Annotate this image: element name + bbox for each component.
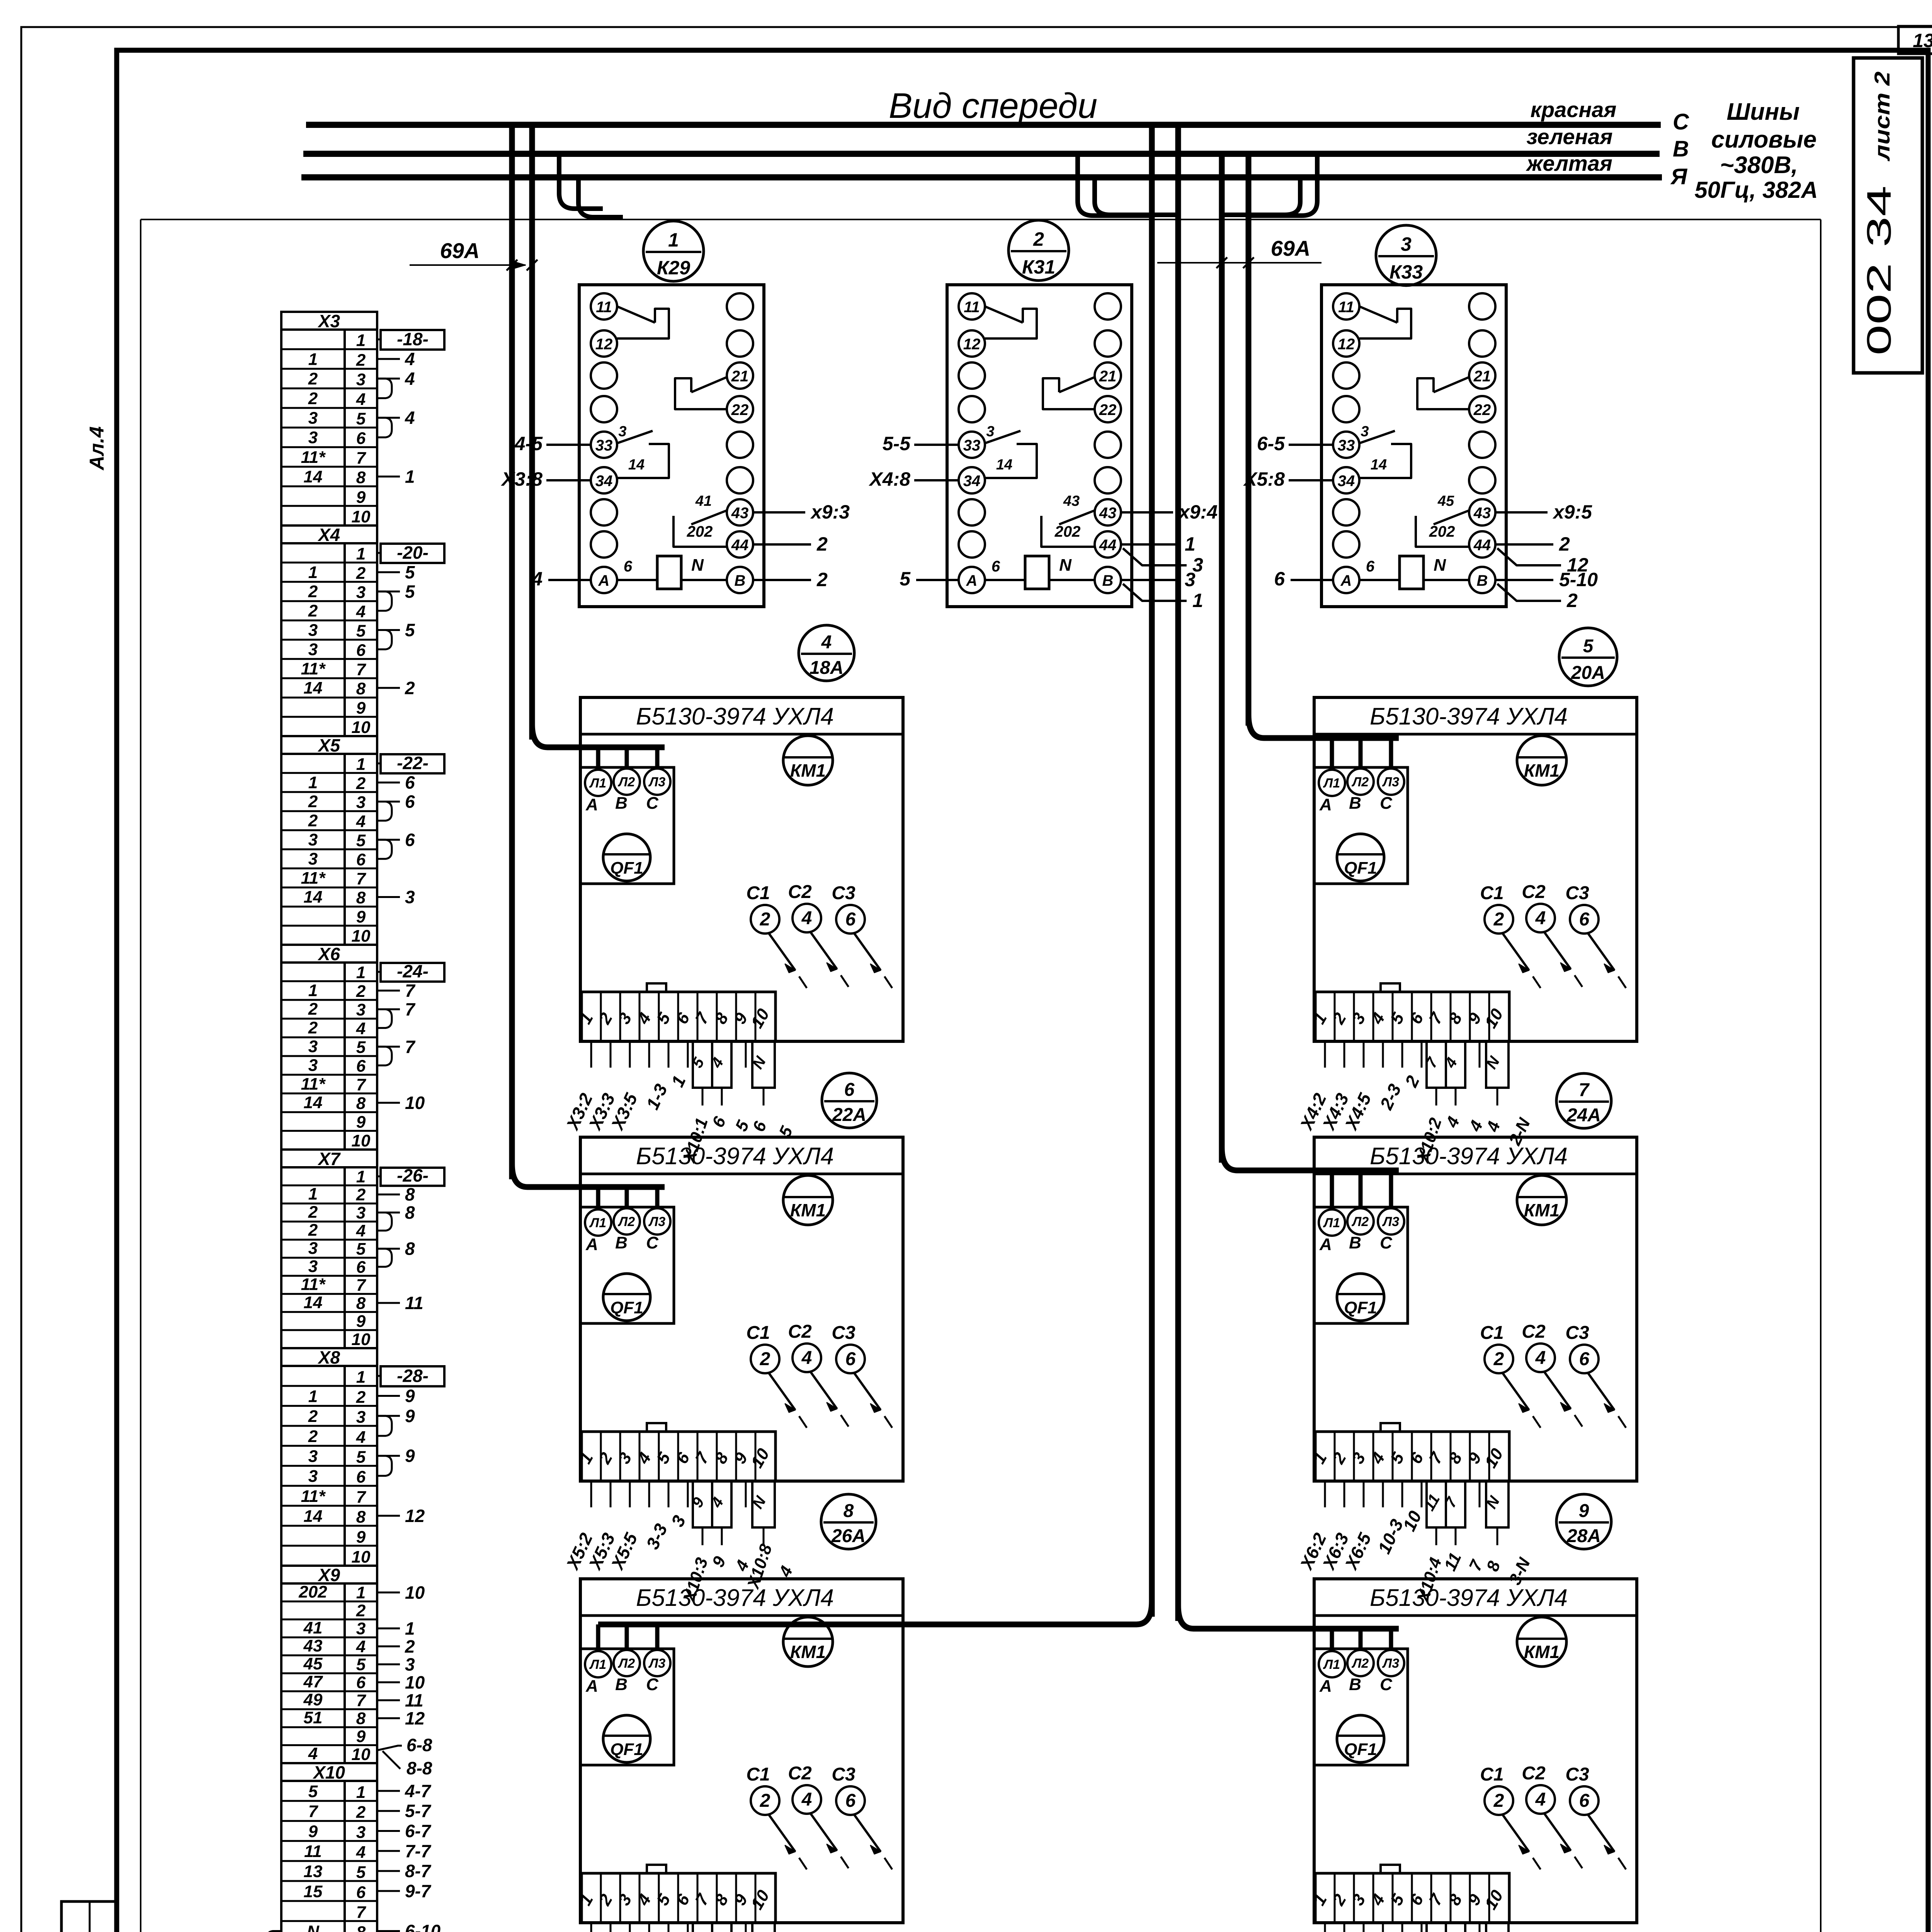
svg-text:5: 5 <box>405 562 415 582</box>
svg-text:6: 6 <box>356 1468 366 1486</box>
svg-text:6: 6 <box>356 1883 366 1902</box>
svg-text:33: 33 <box>595 437 613 454</box>
svg-text:А: А <box>1319 795 1332 814</box>
svg-text:3: 3 <box>356 1408 366 1427</box>
svg-text:С3: С3 <box>1565 1323 1589 1343</box>
svg-text:-26-: -26- <box>397 1165 429 1185</box>
svg-text:2: 2 <box>308 1000 318 1019</box>
svg-text:12: 12 <box>1338 336 1355 353</box>
svg-text:6: 6 <box>356 641 366 660</box>
svg-text:1: 1 <box>356 1167 366 1186</box>
svg-text:QF1: QF1 <box>1344 1298 1377 1317</box>
svg-text:14: 14 <box>1371 457 1387 473</box>
svg-text:7: 7 <box>356 449 367 468</box>
svg-text:3: 3 <box>308 1037 318 1056</box>
svg-text:5: 5 <box>356 831 366 850</box>
svg-text:4: 4 <box>801 1789 812 1810</box>
svg-text:С: С <box>1673 109 1689 134</box>
svg-text:5-7: 5-7 <box>405 1801 432 1821</box>
svg-text:5: 5 <box>356 1448 366 1467</box>
svg-text:3: 3 <box>356 1619 366 1638</box>
svg-text:7: 7 <box>405 999 416 1019</box>
svg-text:А: А <box>598 572 610 589</box>
svg-text:3: 3 <box>986 423 994 440</box>
svg-text:1: 1 <box>356 1783 366 1802</box>
svg-text:Л1: Л1 <box>1323 776 1340 791</box>
svg-text:12: 12 <box>405 1708 425 1728</box>
svg-text:202: 202 <box>1429 523 1455 540</box>
svg-text:Б5130-3974 УХЛ4: Б5130-3974 УХЛ4 <box>1370 1585 1568 1611</box>
svg-text:2: 2 <box>308 1427 318 1446</box>
svg-text:2: 2 <box>405 678 415 698</box>
svg-text:6: 6 <box>845 1349 856 1369</box>
svg-text:7: 7 <box>356 1691 367 1710</box>
svg-text:3: 3 <box>308 830 318 849</box>
svg-text:2: 2 <box>1493 1791 1504 1811</box>
svg-text:4: 4 <box>356 390 366 409</box>
svg-text:8-8: 8-8 <box>406 1758 432 1778</box>
svg-text:11: 11 <box>405 1293 423 1313</box>
svg-text:8: 8 <box>356 468 366 487</box>
svg-text:Б5130-3974 УХЛ4: Б5130-3974 УХЛ4 <box>1370 1143 1568 1170</box>
svg-text:Х7: Х7 <box>317 1149 341 1169</box>
svg-text:8: 8 <box>356 1508 366 1527</box>
svg-text:21: 21 <box>731 368 749 385</box>
svg-text:11*: 11* <box>301 659 326 678</box>
svg-text:4: 4 <box>1535 1348 1546 1368</box>
svg-text:28А: 28А <box>1566 1526 1601 1546</box>
svg-text:лист 2: лист 2 <box>1870 71 1894 162</box>
svg-text:11*: 11* <box>301 1275 326 1294</box>
svg-text:N: N <box>691 556 704 575</box>
svg-text:В: В <box>735 572 746 589</box>
svg-text:4: 4 <box>801 1348 812 1368</box>
svg-text:6: 6 <box>1274 568 1285 590</box>
svg-text:-28-: -28- <box>397 1366 429 1386</box>
svg-text:1: 1 <box>1185 533 1196 555</box>
svg-text:КМ1: КМ1 <box>790 1200 826 1220</box>
svg-text:2: 2 <box>1559 533 1570 555</box>
svg-text:3: 3 <box>308 1447 318 1466</box>
svg-text:Ал.4: Ал.4 <box>86 426 108 471</box>
svg-text:В: В <box>615 1675 628 1694</box>
svg-text:3: 3 <box>356 793 366 812</box>
svg-text:1: 1 <box>308 1185 318 1204</box>
svg-text:2: 2 <box>308 582 318 601</box>
svg-text:8: 8 <box>356 679 366 698</box>
svg-text:5: 5 <box>356 1863 366 1882</box>
svg-text:С: С <box>646 794 659 813</box>
svg-text:3: 3 <box>308 409 318 428</box>
svg-text:22А: 22А <box>832 1105 866 1125</box>
svg-text:С3: С3 <box>832 1323 855 1343</box>
svg-text:А: А <box>585 1235 598 1254</box>
svg-text:2: 2 <box>308 1202 318 1221</box>
svg-text:6: 6 <box>405 772 415 793</box>
svg-text:43: 43 <box>731 505 749 522</box>
svg-text:С3: С3 <box>1565 883 1589 903</box>
svg-text:4: 4 <box>405 349 415 369</box>
svg-text:6: 6 <box>845 1791 856 1811</box>
svg-text:9: 9 <box>356 488 366 507</box>
svg-text:8: 8 <box>356 1923 366 1932</box>
svg-text:~380В,: ~380В, <box>1720 152 1798 179</box>
svg-text:Л1: Л1 <box>589 1216 606 1230</box>
svg-text:6: 6 <box>1579 1791 1590 1811</box>
svg-text:202: 202 <box>1054 523 1081 540</box>
svg-text:47: 47 <box>303 1672 323 1691</box>
svg-text:С: С <box>646 1675 659 1694</box>
svg-text:зеленая: зеленая <box>1527 124 1613 149</box>
svg-text:10: 10 <box>352 1131 371 1150</box>
svg-text:4: 4 <box>1535 1789 1546 1810</box>
svg-text:С: С <box>1380 1675 1393 1694</box>
svg-text:4: 4 <box>356 1843 366 1862</box>
svg-text:3: 3 <box>308 1056 318 1075</box>
svg-text:4: 4 <box>356 1019 366 1038</box>
svg-text:Х9: Х9 <box>317 1565 340 1585</box>
svg-text:1: 1 <box>308 1387 318 1406</box>
svg-text:6: 6 <box>845 909 856 930</box>
svg-text:2: 2 <box>308 792 318 811</box>
svg-text:10: 10 <box>352 718 371 737</box>
svg-text:7: 7 <box>356 1075 367 1094</box>
svg-text:14: 14 <box>304 679 323 697</box>
svg-text:11*: 11* <box>301 448 326 467</box>
svg-text:43: 43 <box>303 1636 323 1655</box>
svg-text:К31: К31 <box>1022 256 1055 278</box>
svg-text:С: С <box>646 1233 659 1252</box>
svg-text:21: 21 <box>1473 368 1491 385</box>
svg-text:3: 3 <box>618 423 626 440</box>
svg-text:8: 8 <box>356 1294 366 1313</box>
svg-text:Л2: Л2 <box>1351 1656 1369 1671</box>
svg-text:С2: С2 <box>788 1763 812 1784</box>
svg-text:18А: 18А <box>810 658 844 678</box>
svg-text:КМ1: КМ1 <box>1524 760 1560 781</box>
svg-text:С1: С1 <box>746 1764 770 1785</box>
svg-text:3: 3 <box>1401 233 1412 255</box>
svg-text:желтая: желтая <box>1526 151 1612 175</box>
svg-text:1: 1 <box>356 755 366 774</box>
svg-text:3: 3 <box>308 1239 318 1258</box>
svg-text:8: 8 <box>356 888 366 907</box>
svg-text:7: 7 <box>356 1276 367 1295</box>
svg-text:4: 4 <box>356 1221 366 1240</box>
svg-text:5: 5 <box>405 620 415 640</box>
svg-text:С2: С2 <box>788 1321 812 1342</box>
svg-text:Х3: Х3 <box>317 311 340 331</box>
svg-text:8-7: 8-7 <box>405 1861 432 1881</box>
svg-text:10: 10 <box>352 927 371 946</box>
svg-text:33: 33 <box>1338 437 1355 454</box>
svg-text:2: 2 <box>356 1388 366 1406</box>
svg-text:К33: К33 <box>1389 261 1423 283</box>
svg-text:9: 9 <box>356 1727 366 1746</box>
svg-text:13: 13 <box>1913 30 1932 51</box>
svg-text:11: 11 <box>304 1842 322 1861</box>
svg-text:Л3: Л3 <box>1382 1214 1399 1229</box>
svg-text:2: 2 <box>308 1407 318 1426</box>
svg-text:7-7: 7-7 <box>405 1841 432 1861</box>
svg-text:2: 2 <box>308 369 318 388</box>
svg-text:2: 2 <box>1033 228 1044 250</box>
svg-text:х9:5: х9:5 <box>1552 501 1592 523</box>
svg-text:QF1: QF1 <box>610 1740 643 1759</box>
svg-text:В: В <box>1102 572 1114 589</box>
svg-text:6: 6 <box>356 850 366 869</box>
svg-text:А: А <box>1340 572 1352 589</box>
svg-text:Л2: Л2 <box>1351 1214 1369 1229</box>
svg-text:2: 2 <box>816 533 828 555</box>
svg-text:С3: С3 <box>832 1764 855 1785</box>
svg-text:Л1: Л1 <box>589 1657 606 1672</box>
svg-text:44: 44 <box>731 537 749 554</box>
svg-text:22: 22 <box>731 401 749 418</box>
svg-text:А: А <box>585 795 598 814</box>
svg-text:4: 4 <box>356 602 366 621</box>
svg-text:14: 14 <box>304 468 323 486</box>
svg-text:3: 3 <box>308 1257 318 1276</box>
svg-text:2: 2 <box>760 1791 770 1811</box>
svg-text:69А: 69А <box>440 238 480 263</box>
svg-text:4: 4 <box>531 568 543 590</box>
svg-text:6: 6 <box>405 830 415 850</box>
svg-text:12: 12 <box>405 1506 425 1526</box>
svg-text:5-5: 5-5 <box>883 433 911 454</box>
svg-text:7: 7 <box>405 1037 416 1057</box>
svg-text:Б5130-3974 УХЛ4: Б5130-3974 УХЛ4 <box>636 1585 834 1611</box>
svg-text:6: 6 <box>356 1056 366 1075</box>
svg-text:3: 3 <box>405 887 415 907</box>
svg-text:1: 1 <box>356 1583 366 1602</box>
svg-text:Х10: Х10 <box>312 1762 345 1782</box>
svg-text:21: 21 <box>1099 368 1117 385</box>
svg-text:А: А <box>966 572 978 589</box>
svg-text:2: 2 <box>308 389 318 408</box>
svg-text:14: 14 <box>304 888 323 906</box>
svg-text:7: 7 <box>405 981 416 1001</box>
svg-text:45: 45 <box>1437 493 1454 509</box>
svg-text:4: 4 <box>356 1428 366 1447</box>
svg-text:24А: 24А <box>1566 1105 1601 1126</box>
svg-text:10: 10 <box>352 507 371 526</box>
svg-text:6-8: 6-8 <box>406 1735 432 1755</box>
svg-text:6: 6 <box>1366 558 1375 575</box>
svg-text:3: 3 <box>405 1654 415 1674</box>
svg-text:14: 14 <box>304 1093 323 1112</box>
svg-text:14: 14 <box>996 457 1012 473</box>
svg-text:11: 11 <box>1338 299 1354 316</box>
svg-text:2: 2 <box>356 774 366 793</box>
svg-text:5-10: 5-10 <box>1559 569 1598 590</box>
svg-text:9: 9 <box>356 908 366 927</box>
svg-text:3: 3 <box>308 1467 318 1486</box>
svg-text:20А: 20А <box>1571 663 1605 683</box>
svg-text:3: 3 <box>356 1823 366 1842</box>
svg-text:49: 49 <box>303 1690 323 1709</box>
svg-text:Х3:8: Х3:8 <box>500 468 543 490</box>
svg-text:12: 12 <box>595 336 613 353</box>
svg-text:8: 8 <box>844 1501 854 1521</box>
svg-text:6-5: 6-5 <box>1257 433 1285 454</box>
svg-text:-22-: -22- <box>397 753 429 773</box>
svg-text:-18-: -18- <box>397 329 429 349</box>
svg-text:Л1: Л1 <box>1323 1657 1340 1672</box>
svg-text:4: 4 <box>405 369 415 389</box>
svg-text:В: В <box>615 794 628 813</box>
svg-text:12: 12 <box>963 336 981 353</box>
svg-text:Х5: Х5 <box>317 735 341 755</box>
svg-text:8: 8 <box>405 1202 415 1223</box>
svg-text:Л2: Л2 <box>617 775 635 789</box>
svg-text:7: 7 <box>356 660 367 679</box>
svg-text:14: 14 <box>628 457 645 473</box>
svg-text:1: 1 <box>356 544 366 563</box>
svg-text:41: 41 <box>303 1619 323 1638</box>
svg-text:х9:3: х9:3 <box>810 501 850 523</box>
svg-text:5: 5 <box>900 568 911 590</box>
svg-text:6-10: 6-10 <box>405 1921 440 1932</box>
svg-text:1: 1 <box>308 563 318 582</box>
svg-text:С2: С2 <box>1522 1763 1546 1784</box>
svg-text:К29: К29 <box>657 257 690 279</box>
svg-text:6: 6 <box>1579 1349 1590 1369</box>
svg-text:41: 41 <box>695 493 712 509</box>
svg-text:Х5:8: Х5:8 <box>1243 468 1285 490</box>
svg-text:9: 9 <box>308 1822 318 1841</box>
svg-text:х9:4: х9:4 <box>1178 501 1218 523</box>
svg-text:1: 1 <box>1192 590 1203 611</box>
svg-text:В: В <box>1349 1675 1361 1694</box>
svg-text:11*: 11* <box>301 869 326 888</box>
svg-text:2: 2 <box>760 909 770 930</box>
svg-text:6: 6 <box>356 1258 366 1277</box>
svg-text:11: 11 <box>596 299 612 316</box>
svg-text:9: 9 <box>405 1406 415 1426</box>
svg-text:9: 9 <box>356 1527 366 1546</box>
svg-text:6-7: 6-7 <box>405 1821 432 1841</box>
svg-text:44: 44 <box>1473 537 1491 554</box>
svg-text:5: 5 <box>356 1655 366 1674</box>
svg-text:9: 9 <box>1579 1501 1589 1521</box>
svg-text:202: 202 <box>687 523 713 540</box>
svg-text:2: 2 <box>308 602 318 621</box>
svg-text:44: 44 <box>1099 537 1117 554</box>
svg-text:22: 22 <box>1099 401 1117 418</box>
svg-text:7: 7 <box>356 869 367 888</box>
svg-text:2: 2 <box>356 1803 366 1822</box>
svg-text:-24-: -24- <box>397 961 429 981</box>
svg-text:А: А <box>1319 1235 1332 1254</box>
svg-text:Л2: Л2 <box>617 1656 635 1671</box>
svg-text:2: 2 <box>816 569 828 590</box>
svg-text:4: 4 <box>308 1744 318 1763</box>
svg-text:9: 9 <box>356 1113 366 1132</box>
svg-text:34: 34 <box>963 473 981 490</box>
svg-text:1: 1 <box>356 963 366 982</box>
svg-text:5: 5 <box>1583 636 1594 656</box>
svg-text:2: 2 <box>356 564 366 583</box>
svg-text:С1: С1 <box>746 883 770 903</box>
svg-text:3: 3 <box>308 428 318 447</box>
svg-text:43: 43 <box>1473 505 1491 522</box>
svg-text:50Гц, 382А: 50Гц, 382А <box>1694 177 1818 203</box>
svg-text:3: 3 <box>1185 569 1196 590</box>
svg-text:4: 4 <box>821 632 832 653</box>
svg-text:В: В <box>1477 572 1488 589</box>
svg-text:Л3: Л3 <box>1382 775 1399 789</box>
svg-text:22: 22 <box>1473 401 1491 418</box>
svg-text:10: 10 <box>405 1582 425 1602</box>
svg-text:А: А <box>585 1677 598 1696</box>
svg-text:Л3: Л3 <box>1382 1656 1399 1671</box>
svg-text:2: 2 <box>1566 590 1578 611</box>
svg-text:3: 3 <box>356 583 366 602</box>
svg-text:13: 13 <box>304 1862 323 1881</box>
svg-text:3: 3 <box>308 849 318 868</box>
svg-text:9: 9 <box>405 1386 415 1406</box>
svg-text:КМ1: КМ1 <box>1524 1200 1560 1220</box>
svg-text:11*: 11* <box>301 1487 326 1506</box>
svg-text:6: 6 <box>844 1080 855 1100</box>
svg-text:4: 4 <box>356 812 366 831</box>
svg-text:С1: С1 <box>1480 1764 1503 1785</box>
svg-text:1: 1 <box>356 331 366 350</box>
svg-text:1: 1 <box>308 350 318 369</box>
svg-text:С1: С1 <box>746 1323 770 1343</box>
svg-text:45: 45 <box>303 1655 323 1673</box>
svg-text:9: 9 <box>356 699 366 718</box>
svg-text:Вид спереди: Вид спереди <box>889 86 1097 126</box>
svg-text:51: 51 <box>304 1708 323 1727</box>
svg-text:7: 7 <box>356 1488 367 1507</box>
svg-text:9: 9 <box>356 1312 366 1331</box>
svg-text:2: 2 <box>1493 909 1504 930</box>
svg-text:6: 6 <box>356 1673 366 1692</box>
svg-text:14: 14 <box>304 1293 323 1312</box>
svg-text:7: 7 <box>308 1802 319 1821</box>
svg-text:Х4:8: Х4:8 <box>868 468 910 490</box>
svg-text:6: 6 <box>356 429 366 448</box>
svg-text:QF1: QF1 <box>1344 1740 1377 1759</box>
svg-text:С: С <box>1380 794 1393 813</box>
svg-text:С2: С2 <box>1522 1321 1546 1342</box>
svg-text:С1: С1 <box>1480 1323 1503 1343</box>
svg-text:2: 2 <box>405 1636 415 1656</box>
svg-text:В: В <box>615 1233 628 1252</box>
svg-text:43: 43 <box>1063 493 1080 509</box>
svg-text:С: С <box>1380 1233 1393 1252</box>
svg-text:1: 1 <box>356 1368 366 1387</box>
svg-text:Л3: Л3 <box>648 775 665 789</box>
svg-text:А: А <box>1319 1677 1332 1696</box>
svg-text:Л2: Л2 <box>1351 775 1369 789</box>
svg-text:8: 8 <box>356 1094 366 1113</box>
svg-text:34: 34 <box>1338 473 1355 490</box>
svg-text:5: 5 <box>356 1038 366 1057</box>
svg-text:3: 3 <box>356 1203 366 1222</box>
svg-text:7: 7 <box>1579 1080 1590 1100</box>
svg-text:11: 11 <box>405 1690 423 1710</box>
svg-text:С2: С2 <box>788 882 812 902</box>
svg-text:QF1: QF1 <box>610 1298 643 1317</box>
svg-text:Х6: Х6 <box>317 944 340 964</box>
svg-text:6: 6 <box>992 558 1000 575</box>
svg-text:В: В <box>1349 1233 1361 1252</box>
svg-text:1: 1 <box>668 229 679 251</box>
svg-text:Б5130-3974 УХЛ4: Б5130-3974 УХЛ4 <box>636 703 834 730</box>
